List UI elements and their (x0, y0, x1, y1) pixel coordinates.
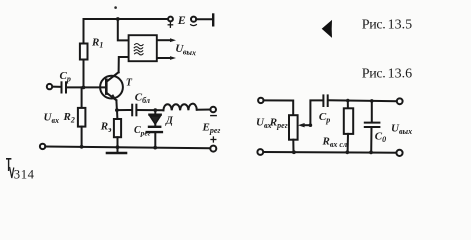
polarity plus mark (211, 137, 216, 142)
svg-text:E: E (177, 13, 186, 27)
filter block wave symbol (134, 44, 143, 55)
node emitter bottom (116, 145, 120, 149)
wire C0 top lead (371, 101, 373, 123)
wire bottom rail right (263, 151, 396, 154)
svg-text:R2: R2 (63, 111, 75, 125)
wire emitter lead (115, 100, 118, 110)
capacitor C0 (365, 123, 380, 127)
terminal input (47, 84, 52, 89)
svg-text:Рис.: Рис. (362, 18, 386, 33)
node collector rail junction (116, 17, 120, 21)
svg-text:Cр: Cр (319, 111, 330, 125)
svg-text:Rрег: Rрег (269, 116, 288, 130)
node C0 bottom (369, 151, 373, 155)
svg-text:Рис.: Рис. (362, 66, 386, 81)
battery plate bar (212, 15, 214, 26)
wire wiper riser (310, 100, 322, 125)
node Rin bottom (345, 150, 349, 154)
svg-text:Д: Д (165, 116, 174, 127)
svg-text:Cр: Cр (60, 70, 71, 84)
wire Cbl to coil (137, 109, 163, 111)
svg-text:Eрег: Eрег (202, 122, 221, 136)
wire coil to Ereg (197, 109, 211, 111)
capacitor Cbl (132, 105, 136, 116)
node Rin junction (346, 99, 350, 103)
ground (107, 147, 126, 153)
svg-text:13.5: 13.5 (388, 18, 413, 33)
terminal Ereg minus (210, 107, 216, 113)
wire collector to block (119, 57, 129, 72)
wire Rin top lead (347, 101, 349, 109)
node R2 bottom (80, 145, 84, 149)
node wiper riser (309, 123, 313, 127)
node emitter Cbl junction (115, 108, 119, 112)
terminal output bottom (396, 150, 402, 156)
wire E stub (196, 18, 212, 20)
terminal E plus (168, 17, 173, 22)
svg-text:Uвх: Uвх (44, 112, 60, 126)
wire bottom rail (45, 147, 210, 149)
wire top rail right (329, 99, 397, 102)
terminal input top (258, 98, 263, 103)
inductor L (163, 104, 196, 111)
polarity minus mark (211, 115, 216, 117)
marginal triangle marker (322, 20, 332, 38)
wire Rin bottom lead (347, 134, 349, 152)
resistor Rin (344, 108, 353, 134)
svg-text:C0: C0 (375, 131, 386, 145)
svg-text:Uвых: Uвых (391, 123, 412, 137)
wire R2 bottom lead (81, 127, 83, 147)
svg-text:R1: R1 (91, 36, 103, 49)
resistor R2 (78, 108, 86, 127)
wire emitter to Cbl (117, 109, 131, 111)
terminal input bottom (40, 144, 45, 149)
svg-text:13.6: 13.6 (388, 66, 413, 81)
wire input top (264, 100, 294, 115)
svg-text:Uвых: Uвых (175, 43, 197, 58)
svg-text:Rэ: Rэ (100, 121, 112, 135)
wire R1 top lead (83, 19, 85, 44)
wire output arrow bottom (157, 56, 176, 60)
wire R3 bottom lead (117, 137, 119, 147)
capacitor Cp2 (323, 95, 327, 106)
wire rail to block (118, 19, 129, 40)
wire R1 bottom lead (83, 60, 85, 88)
wire base (66, 86, 106, 88)
terminal input bottom (257, 149, 263, 155)
wire input to Cp (52, 86, 61, 88)
node diode top junction (153, 108, 157, 112)
terminal E minus (191, 17, 196, 22)
transistor T (100, 72, 123, 100)
wire Rreg bottom lead (292, 140, 294, 152)
wire C0 bottom lead (370, 127, 372, 152)
svg-text:314: 314 (14, 167, 35, 181)
terminal Ereg plus (210, 146, 216, 152)
resistor R3 (114, 119, 121, 137)
wire R3 top lead (116, 110, 118, 119)
node C0 junction (370, 99, 374, 103)
polarity minus mark (191, 25, 197, 26)
wiper arrow (298, 123, 311, 127)
node diode bottom (153, 146, 157, 150)
capacitor Cp (62, 82, 67, 92)
svg-text:Rвх сл: Rвх сл (322, 136, 348, 150)
filter block U1 (129, 35, 157, 61)
wire R2 top lead (81, 87, 83, 108)
wire top supply rail (84, 18, 169, 20)
node Rreg bottom (292, 150, 296, 154)
svg-text:T: T (126, 77, 133, 88)
page number 314 (6, 159, 14, 178)
ink speck (114, 6, 117, 9)
svg-text:Cбл: Cбл (135, 92, 150, 106)
node base divider junction (82, 86, 86, 90)
diode D varicap (147, 110, 162, 148)
terminal output top (397, 98, 403, 104)
resistor R1 (80, 44, 88, 60)
polarity plus mark (168, 22, 172, 27)
wire output arrow top (157, 38, 176, 42)
resistor Rreg (289, 115, 298, 140)
